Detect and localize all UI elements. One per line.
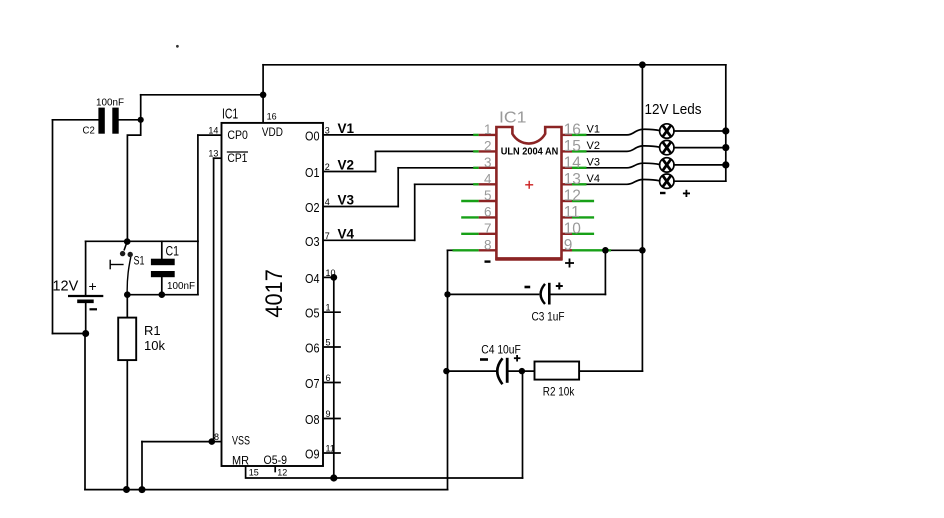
wire S1 C1 bottom rail	[127, 294, 198, 296]
node R1 ground bus	[123, 486, 130, 493]
PARTS	[68, 45, 729, 493]
wire C2 junction down jog	[127, 120, 140, 242]
wire O0 to ULN pin1	[323, 134, 474, 136]
svg-text:4: 4	[484, 171, 492, 186]
wire O3 stub	[323, 239, 415, 241]
wire VSS down to ground bus	[141, 442, 143, 490]
svg-text:O5-9: O5-9	[264, 453, 288, 467]
label LED minus	[660, 192, 666, 194]
node C4 right R2	[519, 368, 525, 374]
wire C3 left lead	[448, 293, 539, 295]
svg-text:C3 1uF: C3 1uF	[532, 312, 565, 324]
wire ULN pin8 lead	[448, 249, 454, 251]
svg-text:13: 13	[564, 171, 581, 188]
svg-text:5: 5	[326, 338, 331, 348]
wire V2 to ULN pin2	[376, 150, 474, 152]
svg-text:12: 12	[564, 188, 581, 205]
node pin9 C3	[602, 247, 609, 254]
svg-text:V2: V2	[587, 140, 600, 152]
wire O4 vertical down to MR	[333, 277, 335, 478]
wire LED3 hop from pin14	[585, 163, 659, 168]
svg-text:O3: O3	[305, 235, 320, 249]
wire VSS pin 8 stub	[212, 441, 222, 443]
svg-text:14: 14	[564, 154, 582, 171]
svg-text:O4: O4	[305, 272, 320, 286]
stray mark	[176, 45, 179, 48]
svg-text:IC1: IC1	[222, 105, 238, 122]
wire C4 right lead to R2	[508, 370, 535, 372]
wire C2 right to junction	[119, 119, 141, 121]
svg-text:1: 1	[326, 303, 331, 313]
LED D1	[660, 124, 674, 138]
svg-text:8: 8	[214, 432, 219, 442]
wire ULN pin9 to right vertical	[610, 249, 642, 251]
svg-text:C1: C1	[166, 243, 180, 258]
ULN left pin nets green	[453, 135, 479, 250]
svg-text:CP1: CP1	[227, 151, 247, 165]
svg-text:C4 10uF: C4 10uF	[481, 344, 521, 356]
svg-text:15: 15	[564, 138, 581, 155]
IC1 4017 body	[222, 123, 324, 466]
wire VSS node left	[142, 441, 212, 443]
node battery minus	[82, 330, 89, 337]
svg-text:14: 14	[208, 126, 218, 136]
wire battery minus down to ground bus	[84, 334, 86, 490]
wire V4 riser	[414, 184, 416, 240]
svg-text:11: 11	[326, 444, 335, 454]
node S1 bottom R1 top	[124, 291, 131, 298]
wire C4 R2 node down to MR wire	[522, 371, 524, 478]
label C4 minus	[480, 358, 488, 361]
svg-text:15: 15	[249, 468, 259, 478]
svg-text:V4: V4	[587, 173, 600, 185]
svg-text:4017: 4017	[261, 269, 288, 318]
ULN right pin nets green	[572, 135, 611, 250]
node LED1 bus	[722, 127, 729, 134]
wire O1 stub	[323, 171, 376, 173]
svg-text:2: 2	[484, 138, 492, 153]
svg-text:CP0: CP0	[227, 128, 248, 142]
svg-text:13: 13	[208, 149, 218, 159]
svg-text:3: 3	[325, 125, 330, 135]
wire C2 left to left rail	[53, 119, 99, 121]
wire V2 riser	[375, 151, 377, 171]
capacitor C2 100nF	[98, 108, 118, 134]
svg-text:9: 9	[564, 237, 573, 254]
wire C2 junction up	[140, 95, 142, 120]
label ULN plus	[565, 259, 574, 268]
wire LED3 right lead	[674, 164, 726, 166]
svg-text:V1: V1	[587, 123, 600, 135]
wire S1 top rail	[86, 240, 198, 242]
svg-text:10: 10	[564, 220, 582, 237]
node C3 left	[444, 291, 450, 297]
svg-text:ULN 2004 AN: ULN 2004 AN	[501, 147, 559, 158]
svg-text:O8: O8	[305, 413, 320, 427]
svg-text:O2: O2	[305, 201, 320, 215]
wire top rail	[263, 64, 726, 66]
battery 12V	[68, 296, 103, 301]
wire CP0 vertical	[197, 135, 199, 295]
svg-text:O5: O5	[305, 307, 320, 321]
svg-text:VDD: VDD	[262, 125, 283, 139]
svg-text:V3: V3	[338, 193, 355, 208]
node S1 top	[124, 238, 131, 245]
node MR wire O4	[330, 474, 337, 481]
label C3 plus	[556, 283, 563, 290]
node C1 bottom	[159, 291, 166, 298]
capacitor C3 1uF plates	[541, 283, 550, 305]
ULN bottom edge thick	[495, 257, 562, 261]
wire right vertical from top rail to R2	[641, 65, 643, 371]
wire O9 stub	[323, 452, 340, 454]
label ULN minus	[485, 260, 491, 262]
svg-text:VSS: VSS	[232, 433, 250, 447]
wire LED1 hop from pin16	[585, 129, 659, 135]
svg-text:7: 7	[325, 231, 330, 241]
svg-text:11: 11	[564, 204, 580, 221]
switch S1	[110, 241, 133, 294]
wire C3 right lead	[550, 293, 606, 295]
wire O8 stub	[323, 418, 340, 420]
wire left rail to battery minus	[53, 333, 86, 335]
svg-text:V4: V4	[338, 226, 355, 241]
capacitor C4 10uF plates	[497, 358, 507, 384]
node C4 left	[443, 368, 449, 374]
svg-text:8: 8	[484, 237, 492, 252]
wire MR pin 15 bracket	[246, 466, 523, 478]
wire V4 to ULN pin4	[415, 183, 474, 185]
LED D2	[660, 140, 674, 154]
wire LED1 right lead	[674, 130, 726, 132]
label C4 plus	[514, 355, 521, 362]
wire VDD junction up to top rail	[262, 65, 264, 95]
ULN right pin numbers gray	[564, 122, 582, 254]
svg-text:O1: O1	[305, 166, 320, 180]
wire V3 riser	[397, 168, 399, 207]
svg-text:10k: 10k	[144, 338, 165, 353]
svg-text:R1: R1	[144, 323, 161, 338]
svg-text:16: 16	[267, 112, 277, 122]
node VSS ground bus	[139, 486, 146, 493]
svg-text:O6: O6	[305, 342, 320, 356]
svg-text:10: 10	[326, 268, 336, 278]
ULN right pins red	[562, 135, 573, 250]
svg-text:4: 4	[325, 197, 330, 207]
svg-text:6: 6	[484, 204, 492, 219]
IC1 ULN2004 body	[496, 127, 561, 259]
node VDD junction	[260, 92, 267, 99]
wire right LED bus	[725, 65, 727, 181]
wire LED4 right lead	[674, 180, 726, 182]
node pin9 right vertical	[639, 247, 646, 254]
svg-text:16: 16	[564, 122, 581, 139]
svg-text:7: 7	[484, 221, 492, 236]
svg-text:O9: O9	[305, 448, 320, 462]
wire V3 to ULN pin3	[398, 167, 474, 169]
node top rail LED vertical	[639, 61, 646, 68]
svg-text:S1: S1	[134, 256, 145, 268]
node VSS CP1	[209, 438, 216, 445]
wire R1 bottom lead	[126, 360, 128, 489]
svg-text:12V: 12V	[53, 278, 79, 294]
wire C2 junction to VDD junction	[141, 94, 263, 96]
node O4 pin	[330, 274, 337, 281]
wire O4 stub	[323, 276, 334, 278]
wire CP1 vertical down to VSS node	[213, 158, 215, 441]
svg-text:O7: O7	[305, 377, 320, 391]
wire ULN pin8 vertical to ground bus	[447, 250, 449, 489]
label C3 minus	[525, 286, 531, 289]
svg-text:5: 5	[484, 188, 492, 203]
svg-text:9: 9	[326, 409, 331, 419]
wire O6 stub	[323, 346, 340, 348]
CP1 overline	[227, 151, 248, 153]
wire O7 stub	[323, 382, 340, 384]
svg-text:2: 2	[325, 162, 330, 172]
resistor R1 10k	[118, 318, 136, 361]
resistor R2 10k	[535, 362, 580, 380]
wire O2 stub	[323, 206, 398, 208]
wire CP1 pin 13 stub	[214, 157, 222, 159]
svg-text:12: 12	[277, 468, 287, 478]
wire LED4 hop from pin13	[585, 179, 659, 184]
wire left vertical rail	[52, 120, 54, 334]
wire R2 right lead	[579, 370, 642, 372]
wire C1 bottom lead	[161, 277, 163, 295]
label battery minus	[90, 308, 98, 310]
svg-text:R2 10k: R2 10k	[543, 384, 575, 398]
ULN left pins red	[479, 135, 497, 250]
wire O5 stub	[323, 311, 340, 313]
wire battery plus stub up	[85, 241, 87, 296]
labels V1-V4 at ULN	[587, 123, 600, 184]
LED D4	[660, 174, 674, 188]
node LED3 bus	[722, 161, 729, 168]
svg-text:V1: V1	[338, 121, 355, 136]
wire bottom ground bus	[85, 489, 448, 491]
wire LED2 hop from pin15	[585, 146, 659, 152]
wire C1 top lead	[161, 241, 163, 258]
svg-text:IC1: IC1	[499, 110, 527, 127]
wire R1 top lead	[126, 295, 128, 318]
svg-text:V2: V2	[338, 158, 355, 173]
svg-text:MR: MR	[232, 454, 249, 468]
ULN left pin numbers gray	[484, 122, 492, 252]
node LED2 bus	[722, 144, 729, 151]
node C2 right junction	[138, 117, 144, 123]
ULN origin cross red	[525, 181, 533, 189]
svg-text:+: +	[89, 278, 97, 294]
wire battery minus stub	[85, 301, 87, 333]
svg-text:100nF: 100nF	[167, 280, 195, 292]
wire LED2 right lead	[674, 147, 726, 149]
svg-text:C2: C2	[83, 125, 95, 137]
svg-text:V3: V3	[587, 156, 600, 168]
wire C3 right riser to pin9	[604, 250, 606, 294]
svg-text:3: 3	[484, 155, 492, 170]
wire VDD pin 16	[262, 95, 264, 123]
LED D3	[660, 158, 674, 172]
svg-text:1: 1	[484, 122, 492, 137]
wire CP0 pin 14 stub	[198, 134, 222, 136]
svg-text:O0: O0	[305, 129, 320, 143]
label LED plus	[683, 190, 690, 197]
wire pin 12 tick	[274, 466, 276, 472]
svg-text:6: 6	[326, 373, 331, 383]
wire C4 left lead	[446, 370, 496, 372]
capacitor C1 100nF	[151, 259, 175, 278]
svg-text:12V Leds: 12V Leds	[645, 101, 702, 118]
svg-text:100nF: 100nF	[96, 96, 124, 108]
